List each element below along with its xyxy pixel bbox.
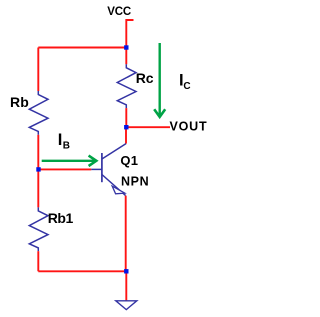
wire Rc to VOUT junction <box>125 108 127 127</box>
resistor Rb <box>29 91 48 135</box>
junction bottom <box>124 269 128 273</box>
svg-text:VCC: VCC <box>107 6 131 18</box>
wire left lower vertical <box>37 251 39 271</box>
wire base horizontal <box>38 168 91 170</box>
svg-text:Q1: Q1 <box>120 153 138 168</box>
wire right upper vertical <box>125 48 127 65</box>
svg-text:Rc: Rc <box>136 70 154 86</box>
junction base <box>36 167 40 171</box>
wire collector vertical <box>125 127 127 143</box>
junction VOUT <box>124 125 128 129</box>
wire VCC stub <box>126 20 133 48</box>
transistor Q1 <box>91 144 126 196</box>
current arrow IB <box>42 156 97 166</box>
svg-text:VOUT: VOUT <box>170 120 208 134</box>
wire VOUT horizontal <box>126 126 170 128</box>
wire bottom horizontal <box>38 270 126 272</box>
wire left mid vertical <box>37 135 39 208</box>
svg-text:B: B <box>63 141 70 152</box>
resistor Rc <box>117 64 136 108</box>
svg-text:I: I <box>58 131 63 149</box>
current arrow IC <box>154 43 165 117</box>
wire left upper vertical <box>37 48 39 92</box>
wire top horizontal <box>38 47 126 49</box>
emitter arrowhead <box>112 186 125 194</box>
svg-text:Rb1: Rb1 <box>48 210 74 226</box>
wire emitter vertical <box>125 196 127 272</box>
collector lead <box>102 144 126 159</box>
svg-text:C: C <box>183 81 190 92</box>
svg-text:Rb: Rb <box>10 94 29 110</box>
svg-text:NPN: NPN <box>121 175 149 189</box>
emitter lead <box>102 175 126 196</box>
base lead <box>91 168 102 170</box>
base bar <box>101 153 103 182</box>
wire ground vertical <box>125 271 127 300</box>
junction top <box>124 45 128 49</box>
resistor Rb1 <box>29 207 48 251</box>
ground symbol <box>116 301 137 310</box>
